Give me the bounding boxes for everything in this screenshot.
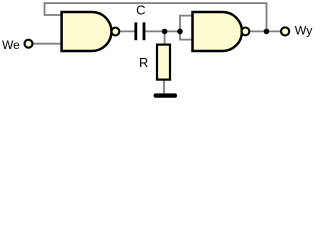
NAND gate U2 (193, 12, 243, 51)
svg-text:R: R (139, 55, 148, 70)
svg-text:C: C (136, 3, 145, 18)
wire resistor to ground (163, 80, 165, 94)
wire We to U1 input (33, 43, 63, 45)
wire capacitor to node junctions (145, 30, 182, 32)
capacitor C plates (136, 22, 144, 40)
bubble U1 output (112, 28, 120, 36)
wire node1 down to resistor (164, 31, 166, 45)
resistor R (157, 45, 170, 80)
svg-text:Wy: Wy (295, 24, 313, 38)
wire feedback loop U2 output to U1 top input (45, 3, 267, 31)
terminal Wy (281, 27, 289, 35)
wire node2 to U2 tied inputs (180, 16, 194, 40)
NAND gate U1 (62, 12, 112, 51)
junction node2 (U2 inputs) (177, 29, 183, 35)
ground (154, 93, 177, 97)
wire U1 output to capacitor (118, 30, 135, 32)
wire U2 output to Wy terminal (249, 30, 281, 32)
terminal We (25, 40, 33, 48)
junction node output (264, 29, 270, 35)
svg-text:We: We (2, 38, 20, 52)
junction node1 (R tap) (162, 29, 168, 35)
bubble U2 output (242, 28, 250, 36)
